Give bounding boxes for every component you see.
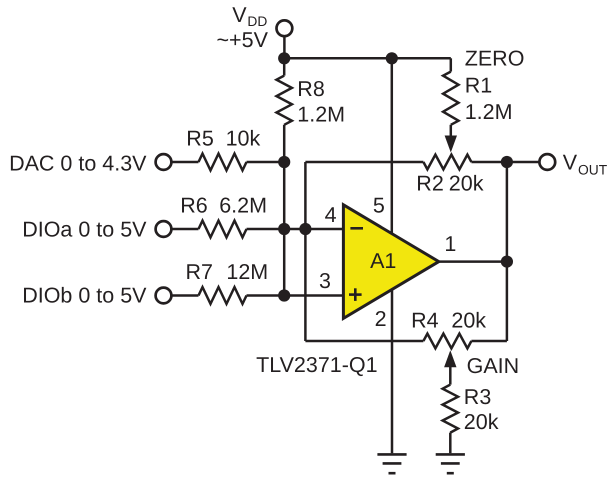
svg-text:R2: R2 — [416, 172, 443, 196]
svg-text:R1: R1 — [465, 73, 492, 97]
svg-text:TLV2371-Q1: TLV2371-Q1 — [256, 353, 378, 377]
svg-text:1: 1 — [444, 232, 456, 256]
svg-text:GAIN: GAIN — [467, 354, 520, 378]
svg-text:20k: 20k — [464, 410, 499, 434]
svg-text:5: 5 — [373, 193, 385, 217]
svg-text:2: 2 — [375, 307, 387, 331]
svg-text:6.2M: 6.2M — [219, 193, 267, 217]
svg-text:20k: 20k — [451, 309, 486, 333]
svg-text:A1: A1 — [370, 249, 396, 273]
svg-text:R3: R3 — [464, 385, 492, 409]
svg-text:4: 4 — [325, 203, 337, 227]
svg-text:20k: 20k — [449, 172, 484, 196]
svg-text:DD: DD — [247, 14, 267, 29]
svg-text:1.2M: 1.2M — [465, 100, 513, 124]
svg-text:DIOb 0 to 5V: DIOb 0 to 5V — [22, 284, 147, 308]
svg-text:DIOa 0 to 5V: DIOa 0 to 5V — [22, 217, 147, 241]
svg-text:DAC 0 to 4.3V: DAC 0 to 4.3V — [9, 152, 147, 176]
svg-text:V: V — [232, 3, 247, 27]
svg-text:1.2M: 1.2M — [297, 102, 345, 126]
svg-text:12M: 12M — [226, 260, 268, 284]
svg-text:R4: R4 — [411, 309, 439, 333]
svg-text:R7: R7 — [186, 260, 213, 284]
svg-text:OUT: OUT — [578, 163, 608, 178]
svg-text:ZERO: ZERO — [465, 47, 525, 71]
svg-text:R5: R5 — [186, 127, 214, 151]
svg-text:~+5V: ~+5V — [217, 28, 269, 52]
svg-text:V: V — [563, 151, 578, 175]
svg-text:10k: 10k — [226, 127, 261, 151]
svg-text:R8: R8 — [297, 77, 325, 101]
svg-text:R6: R6 — [180, 193, 208, 217]
svg-text:3: 3 — [319, 269, 331, 293]
